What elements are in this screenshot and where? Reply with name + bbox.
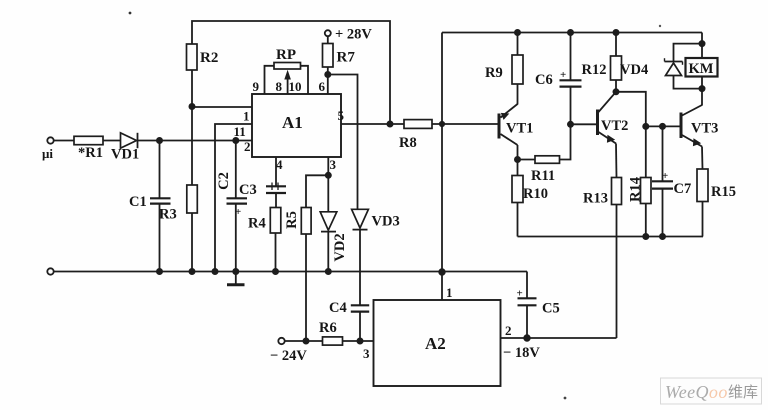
svg-text:2: 2 (244, 139, 251, 154)
node KM bottom (699, 86, 704, 91)
wire R13 down to -18V line (616, 205, 618, 339)
svg-text:C1: C1 (129, 194, 147, 210)
svg-text:R13: R13 (583, 191, 608, 207)
speck (129, 12, 132, 15)
svg-text:R6: R6 (319, 320, 337, 336)
potentiometer RP (265, 47, 309, 94)
wire (103, 140, 120, 142)
node crossing x442 (440, 122, 444, 126)
wire top rail (442, 32, 702, 34)
svg-text:C5: C5 (542, 301, 560, 317)
wire top-left rail (192, 21, 390, 124)
wire R12 to node (615, 80, 617, 92)
wire VD4 bracket bottom (674, 76, 703, 89)
svg-text:VT3: VT3 (691, 121, 718, 137)
resistor R15 (697, 147, 736, 237)
resistor R13 (583, 178, 622, 207)
svg-text:C2: C2 (216, 172, 232, 190)
node C1 junction (157, 138, 162, 143)
node pin3/R5/VD2 (326, 173, 331, 178)
svg-text:KM: KM (689, 61, 714, 77)
wire pin 11 branch (215, 124, 252, 272)
wire branch to R5 (306, 175, 328, 207)
node VT2 base (568, 122, 573, 127)
amplifier A2 (374, 300, 501, 386)
svg-text:R12: R12 (582, 62, 607, 78)
wire R8 to VT1 base (432, 123, 498, 125)
resistor R10 (512, 160, 548, 203)
svg-text:R4: R4 (248, 216, 266, 232)
relay KM (686, 58, 718, 77)
svg-text:R3: R3 (159, 207, 177, 223)
svg-text:A2: A2 (425, 334, 446, 353)
wire A2 pin2 -18V line (501, 337, 617, 339)
node R12 top (613, 30, 618, 35)
op-amp A1 (252, 94, 341, 157)
common terminal (47, 268, 53, 274)
svg-text:VD2: VD2 (332, 233, 348, 261)
node C2 bottom (233, 269, 238, 274)
wire R9 to VT1 emitter (517, 84, 519, 105)
resistor R2 (187, 44, 219, 70)
wire pin 4 down (275, 157, 277, 186)
resistor R1 (74, 136, 103, 161)
transistor VT1 (499, 104, 533, 145)
speck (564, 397, 567, 400)
wire rail end down to KM (701, 33, 703, 59)
wire -24V line (285, 340, 323, 342)
svg-text:R9: R9 (485, 65, 503, 81)
capacitor C3 (239, 182, 286, 208)
svg-text:C7: C7 (674, 181, 692, 197)
capacitor C1 (129, 141, 171, 272)
wire emitter rail (518, 236, 704, 238)
watermark WeeQoo (661, 378, 762, 404)
svg-text:R14: R14 (628, 177, 644, 202)
svg-text:3: 3 (363, 346, 370, 361)
svg-text:R15: R15 (711, 184, 736, 200)
wire R6 to A2 pin 3 (343, 340, 374, 342)
wire rail to C5 (526, 272, 528, 299)
wire branch to VD3 (328, 75, 358, 210)
node A2 pin1 rail crossing (439, 269, 445, 275)
node KM top (699, 41, 704, 46)
node output/top-rail drop (387, 121, 392, 126)
svg-text:维库: 维库 (728, 384, 758, 401)
wire pin 3 down (327, 157, 329, 212)
diode VD3 (352, 209, 400, 229)
node C2 junction (233, 138, 238, 143)
svg-text:− 18V: − 18V (503, 345, 540, 361)
wire R12 node to R14/VT3 base (616, 92, 646, 127)
node pin11 wire bottom (212, 269, 217, 274)
wire A1 pin 5 output line (341, 123, 404, 125)
node VT1/R11/R10 (515, 157, 520, 162)
wire (54, 140, 74, 142)
svg-text:VT2: VT2 (601, 118, 628, 134)
svg-text:R11: R11 (531, 168, 555, 184)
svg-text:VD1: VD1 (111, 147, 139, 163)
wire VD4 bracket top (674, 44, 703, 62)
wire input line to A1 pin 2 (138, 140, 253, 142)
wire R5 down through rail to -24V line (305, 234, 307, 341)
wire KM to VT3 collector (701, 77, 703, 106)
diode VD1 (111, 133, 139, 163)
wire tall vertical to A2 pin 1 (441, 33, 443, 301)
wire bottom rail (54, 271, 527, 273)
node C7 top (660, 124, 665, 129)
node C1 bottom (157, 269, 162, 274)
node R5 drop (303, 338, 308, 343)
wire R4 to rail (275, 233, 277, 272)
-24V terminal (270, 338, 307, 364)
svg-text:3: 3 (330, 157, 337, 172)
svg-text:+: + (517, 288, 523, 300)
node R3 bottom (189, 269, 194, 274)
capacitor C2 polarized (216, 141, 247, 272)
node R14 bottom (643, 234, 648, 239)
diode VD2 (320, 212, 348, 262)
wire VT1 collector down (517, 145, 519, 160)
node C5 on -18V line (524, 335, 530, 341)
resistor R12 (582, 33, 622, 81)
wire R2 to node (191, 70, 193, 107)
node R2/pin1 (189, 104, 194, 109)
wire down to R3 (191, 107, 193, 186)
svg-text:A1: A1 (282, 113, 303, 132)
ground (227, 272, 245, 285)
node R4 bottom (273, 269, 278, 274)
svg-text:1: 1 (446, 285, 453, 300)
svg-text:VD3: VD3 (372, 214, 400, 230)
svg-text:C4: C4 (329, 300, 347, 316)
+28V terminal (325, 27, 373, 43)
svg-text:VT1: VT1 (506, 121, 533, 137)
svg-text:11: 11 (234, 124, 246, 139)
resistor R9 (485, 33, 523, 85)
wire pin 1 line (192, 106, 252, 108)
svg-text:R8: R8 (399, 135, 417, 151)
input terminal μi (42, 137, 54, 161)
wire R10 down to emitter rail (517, 203, 519, 237)
node VT2 collector/R12 (613, 89, 618, 94)
svg-text:VD4: VD4 (620, 62, 648, 78)
node R9 top (515, 30, 520, 35)
wire R3 to rail (191, 213, 193, 272)
node VD2 bottom (326, 269, 331, 274)
resistor R7 (323, 36, 356, 67)
svg-text:R10: R10 (523, 186, 548, 202)
resistor R3 (159, 185, 197, 223)
capacitor C5 polarized (517, 288, 560, 339)
node C6 top (568, 30, 573, 35)
wire VD2 to rail (327, 232, 329, 272)
node C4 bottom (357, 338, 362, 343)
resistor R6 (319, 320, 343, 345)
svg-text:R5: R5 (284, 211, 300, 229)
speck (659, 25, 661, 27)
capacitor C7 polarized (652, 126, 691, 236)
svg-text:4: 4 (276, 157, 283, 172)
wire R7 to pin 6 (327, 67, 329, 94)
wire VD3 down through rail to C4 (359, 230, 361, 306)
svg-text:1: 1 (243, 109, 250, 124)
transistor VT2 (598, 92, 629, 144)
node C7 bottom (660, 234, 665, 239)
resistor R4 (248, 208, 281, 234)
svg-text:R7: R7 (337, 50, 356, 66)
svg-text:C3: C3 (239, 182, 257, 198)
svg-text:+: + (662, 170, 668, 182)
svg-text:2: 2 (505, 323, 512, 338)
wire VT2 emitter down to R13 (615, 144, 618, 178)
wire base line to VT3 (646, 125, 680, 127)
node R14/VT3 base (643, 124, 648, 129)
svg-text:6: 6 (319, 79, 326, 94)
svg-text:− 24V: − 24V (270, 348, 307, 364)
svg-text:*R1: *R1 (78, 145, 103, 161)
svg-text:WeeQoo: WeeQoo (665, 382, 728, 402)
svg-text:9: 9 (253, 79, 260, 94)
resistor R11 (518, 124, 571, 184)
svg-text:C6: C6 (535, 72, 553, 88)
svg-text:10: 10 (289, 79, 302, 94)
svg-text:+ 28V: + 28V (335, 27, 372, 43)
svg-text:μi: μi (42, 146, 53, 161)
resistor R5 (284, 208, 311, 235)
svg-text:8: 8 (276, 79, 283, 94)
resistor R8 (399, 120, 432, 151)
transistor VT3 (681, 105, 718, 147)
node R7/VD3 (325, 72, 330, 77)
wire base line to VT2 (571, 123, 597, 125)
svg-text:+: + (560, 69, 566, 81)
capacitor C4 (329, 300, 369, 341)
capacitor C6 polarized (535, 33, 582, 125)
svg-text:5: 5 (338, 108, 345, 123)
svg-text:RP: RP (276, 47, 296, 63)
svg-text:R2: R2 (200, 50, 218, 66)
resistor R14 (628, 126, 652, 236)
diode VD4 zener (620, 58, 683, 78)
